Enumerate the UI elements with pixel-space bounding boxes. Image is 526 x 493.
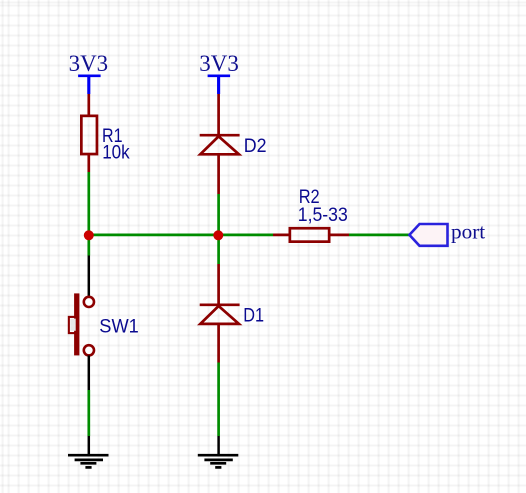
wire (3V3 to D2 cathode) bbox=[217, 94, 220, 136]
resistor R1 bbox=[81, 116, 97, 154]
switch SW1 bbox=[69, 293, 94, 355]
svg-text:port: port bbox=[451, 220, 485, 244]
wire (R2 to port) bbox=[349, 234, 410, 237]
pin wire (GND2 pin) bbox=[217, 436, 220, 455]
value label 10k bbox=[102, 142, 130, 164]
wire (3V3 to R1 pin, left) bbox=[87, 94, 90, 116]
svg-text:SW1: SW1 bbox=[99, 315, 139, 337]
svg-text:D1: D1 bbox=[243, 305, 264, 327]
wire (node B down) bbox=[217, 235, 220, 264]
wire (node A down) bbox=[87, 235, 90, 255]
pin wire (R1 bottom) bbox=[87, 155, 90, 172]
svg-text:10k: 10k bbox=[102, 142, 130, 164]
pin wire (D1 anode) bbox=[217, 324, 220, 363]
pin wire (SW1 top pin) bbox=[88, 256, 91, 298]
resistor R2 bbox=[290, 228, 329, 241]
pin wire (R2 right pin) bbox=[330, 234, 350, 237]
wire (SW1 to GND1) bbox=[87, 390, 90, 436]
wire (D1 to GND2) bbox=[217, 363, 220, 437]
wire (R1 to node A) bbox=[87, 172, 90, 235]
pin wire (D1 cathode) bbox=[217, 264, 220, 306]
pin wire (SW1 bottom pin) bbox=[88, 355, 91, 390]
label SW1 bbox=[99, 315, 139, 337]
port flag symbol bbox=[409, 224, 447, 246]
label D2 bbox=[244, 135, 267, 157]
pin wire (R2 left pin) bbox=[273, 234, 290, 237]
supply symbol 3V3 (middle) label bbox=[199, 51, 239, 76]
ground GND1 bbox=[68, 455, 109, 467]
label R2 bbox=[299, 186, 320, 208]
label D1 bbox=[243, 305, 264, 327]
supply symbol 3V3 (left) label bbox=[69, 51, 109, 76]
diode D1 bbox=[200, 305, 240, 324]
svg-text:D2: D2 bbox=[244, 135, 267, 157]
net label port bbox=[451, 220, 485, 244]
wire (D2 to node B) bbox=[217, 194, 220, 235]
supply symbol 3V3 (middle) bar bbox=[208, 76, 231, 94]
svg-text:3V3: 3V3 bbox=[199, 51, 239, 76]
pin wire (GND1 pin) bbox=[88, 436, 91, 455]
svg-text:3V3: 3V3 bbox=[69, 51, 109, 76]
diode D2 bbox=[200, 135, 240, 154]
ground GND2 bbox=[198, 455, 239, 467]
wire (node A to node B to R2, horizontal net) bbox=[89, 234, 273, 237]
label R1 bbox=[102, 125, 123, 147]
svg-text:1,5-33: 1,5-33 bbox=[298, 204, 348, 226]
node B junction bbox=[213, 230, 223, 240]
supply symbol 3V3 (left) bar bbox=[78, 76, 101, 94]
value label 1,5-33 bbox=[298, 204, 348, 226]
node A junction bbox=[84, 230, 94, 240]
pin wire (D2 anode) bbox=[217, 154, 220, 194]
